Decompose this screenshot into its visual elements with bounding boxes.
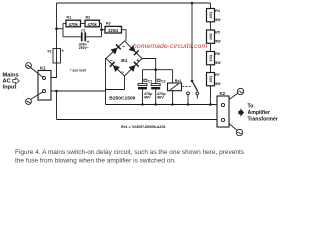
wire top rail to R4 <box>210 3 212 9</box>
wire top rail <box>57 2 211 4</box>
node junction plus rail <box>154 68 157 71</box>
svg-text:40V: 40V <box>144 95 151 100</box>
resistor R6 10 ohm 5W <box>207 52 222 65</box>
svg-text:Re1 = V23057-B0006-A201: Re1 = V23057-B0006-A201 <box>121 125 166 129</box>
bridge rectifier B1 B250C1500 <box>106 41 142 76</box>
diode top-left (bar toward top vertex) <box>111 44 121 54</box>
svg-text:R2: R2 <box>86 16 91 20</box>
svg-text:R7: R7 <box>215 73 220 77</box>
node junction top rail switch <box>191 2 194 5</box>
transformer terminal top <box>229 88 244 99</box>
mains source top <box>26 63 43 78</box>
wire relay actuator dashed link <box>182 86 191 88</box>
connector K2 <box>217 91 229 127</box>
wire R3 to bridge top <box>122 30 127 41</box>
wire left rail bottom <box>56 91 58 120</box>
svg-text:C1: C1 <box>81 29 86 33</box>
wire positive rail <box>143 69 173 71</box>
resistor R7 10 ohm 5W <box>207 73 222 86</box>
wire bridge bottom vertex to left vertical <box>106 76 125 90</box>
svg-text:R3: R3 <box>106 22 111 26</box>
node junction C3 <box>155 103 157 105</box>
svg-text:Transformer: Transformer <box>248 116 278 122</box>
label Mains AC Input <box>3 73 19 91</box>
diode top-right (bar toward right vertex) <box>129 45 139 55</box>
node junction left rail to RC <box>55 27 58 30</box>
mains source bottom <box>26 92 43 105</box>
wire neutral rail to bridge <box>57 90 106 92</box>
wire right bracket <box>101 24 103 37</box>
label To Amplifier Transformer <box>248 103 278 122</box>
wire switch feed from top rail <box>191 3 193 81</box>
resistor R3 220 ohm <box>105 22 122 33</box>
svg-text:B250C1500: B250C1500 <box>109 96 135 102</box>
svg-text:R1: R1 <box>67 16 72 20</box>
node junction switch <box>187 103 189 105</box>
node junction relay <box>171 103 173 105</box>
wire left rail top <box>56 3 58 49</box>
fuse F1 <box>48 49 65 64</box>
wire bridge plus to caps rail <box>142 59 156 70</box>
svg-text:Figure 4. A mains switch-on de: Figure 4. A mains switch-on delay circui… <box>15 149 245 156</box>
svg-text:R5: R5 <box>215 31 220 35</box>
wire K1 bottom terminal out <box>51 90 57 92</box>
arrow to amplifier <box>238 108 244 117</box>
wire bottom rail <box>57 119 218 121</box>
svg-text:10Ω: 10Ω <box>209 76 213 83</box>
capacitor C3 470u 40V <box>151 70 166 105</box>
resistor R2 470k <box>85 16 100 27</box>
node junction right bracket <box>100 28 103 31</box>
wire R4-R5 <box>210 22 212 30</box>
wire R2 to right bracket <box>100 23 102 25</box>
svg-text:K2: K2 <box>220 91 226 96</box>
wire to R1 <box>63 23 66 25</box>
wire to R3 <box>102 29 106 31</box>
svg-text:470k: 470k <box>88 22 98 27</box>
svg-text:Amplifier: Amplifier <box>248 110 270 116</box>
transformer terminal bottom <box>229 124 243 136</box>
svg-text:+: + <box>136 58 139 64</box>
caption figure text <box>15 149 245 165</box>
wire bridge minus (left vertex) down <box>105 59 108 105</box>
svg-text:10Ω: 10Ω <box>209 33 213 40</box>
svg-text:5W: 5W <box>215 39 221 43</box>
svg-text:R6: R6 <box>215 52 220 56</box>
svg-text:C2: C2 <box>148 79 152 83</box>
wire left bracket <box>62 24 64 37</box>
wire R1-R2 <box>81 23 86 25</box>
svg-text:R4: R4 <box>215 9 220 13</box>
svg-text:220Ω: 220Ω <box>108 28 118 33</box>
resistor R1 470k <box>66 16 81 27</box>
svg-text:C3: C3 <box>161 79 165 83</box>
node junction R7 <box>209 103 212 106</box>
svg-text:40V: 40V <box>157 95 164 100</box>
node junction K1 bottom <box>55 90 58 93</box>
capacitor C2 470u 40V <box>138 70 153 105</box>
svg-text:K1: K1 <box>40 65 46 70</box>
wire R5-R6 <box>210 43 212 51</box>
svg-text:10Ω: 10Ω <box>209 12 213 19</box>
svg-text:the fuse from blowing when the: the fuse from blowing when the amplifier… <box>15 158 176 165</box>
svg-text:* see text: * see text <box>70 69 87 73</box>
svg-text:−: − <box>110 58 113 64</box>
wire R6-R7 <box>210 65 212 73</box>
wire F1 to K1 top terminal <box>51 63 57 78</box>
resistor R5 10 ohm 5W <box>207 30 222 43</box>
svg-text:5W: 5W <box>215 82 221 86</box>
switch relay contact <box>187 80 199 105</box>
diode bottom-left (bar toward left vertex) <box>110 62 120 72</box>
connector K1 <box>38 65 51 100</box>
svg-text:To: To <box>248 103 254 109</box>
svg-text:Re1: Re1 <box>175 79 182 83</box>
svg-text:B1: B1 <box>121 58 127 64</box>
arrow mains input <box>13 78 19 84</box>
wire dc rail (lower) <box>106 104 218 106</box>
diode bottom-right (bar toward right vertex) <box>129 62 139 72</box>
svg-text:470k: 470k <box>69 22 79 27</box>
wire R7 down to dc rail <box>210 86 212 105</box>
svg-text:Input: Input <box>3 84 17 90</box>
svg-text:F1: F1 <box>48 49 52 53</box>
capacitor C1 330n 250V~ <box>63 29 102 50</box>
svg-text:5W: 5W <box>215 61 221 65</box>
svg-text:5W: 5W <box>215 18 221 22</box>
node junction C2 <box>141 103 143 105</box>
resistor R4 10 ohm 5W <box>207 9 222 22</box>
wire stub to RC bracket <box>57 28 64 30</box>
relay coil Re1 <box>168 70 182 105</box>
svg-text:250V~: 250V~ <box>79 46 89 50</box>
svg-text:10Ω: 10Ω <box>209 54 213 61</box>
svg-text:homemade-circuits.com: homemade-circuits.com <box>133 43 207 50</box>
